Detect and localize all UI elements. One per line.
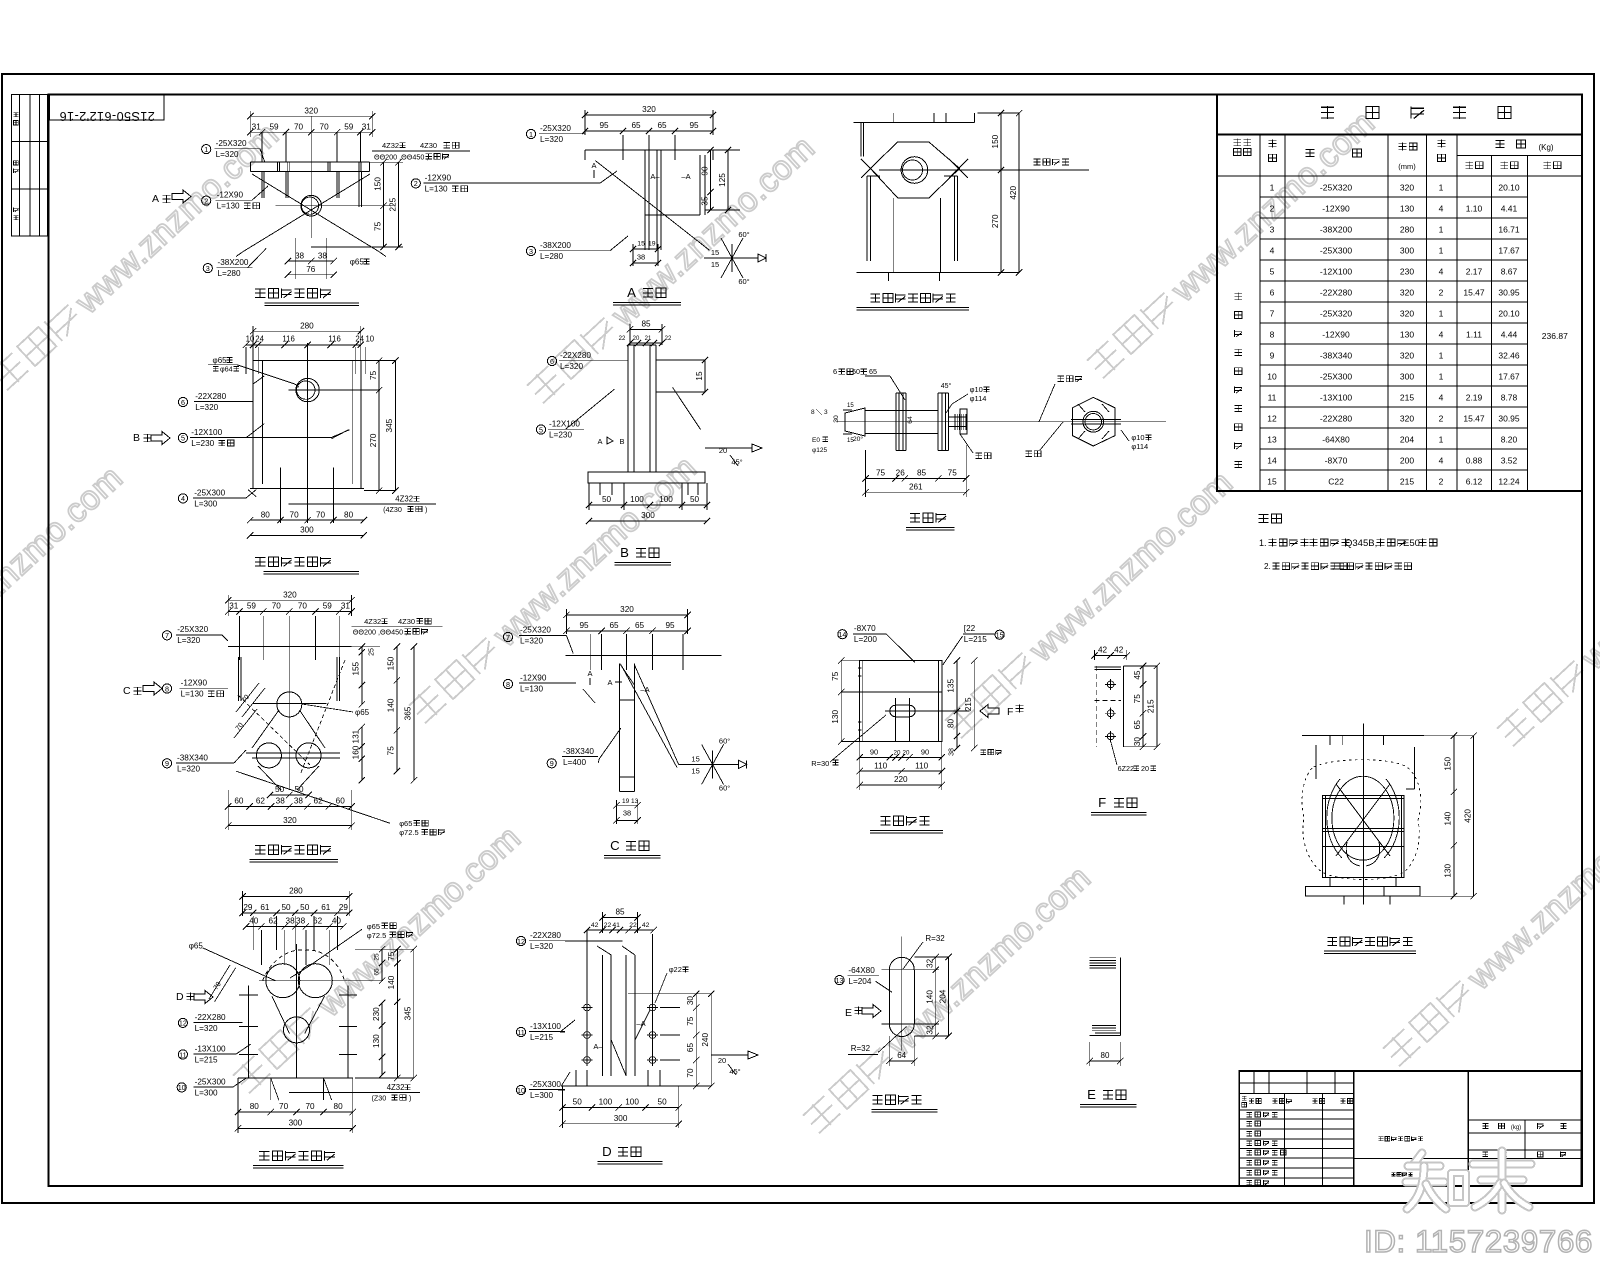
svg-text:-22X280: -22X280 [195,392,226,401]
svg-text:): ) [425,505,427,514]
table header rows [1217,175,1582,177]
svg-text:L=215: L=215 [195,1055,218,1064]
D6 left cone [845,408,865,436]
svg-text:38: 38 [623,809,631,818]
svg-text:L=230: L=230 [191,439,214,448]
svg-text:70: 70 [272,602,282,611]
D13 right dims 30 75 65 70 / 240 [628,993,711,995]
svg-text:75: 75 [373,221,382,231]
D1 title: fixed support upper seat [255,288,265,290]
svg-text:L=320: L=320 [195,1024,218,1033]
D3 centre line extending right [879,169,1089,171]
D8 column with pointed top [619,664,621,792]
svg-text:5: 5 [539,425,543,434]
D14 balloon 13 label -64X80 L=204 [835,976,844,985]
svg-text:17.67: 17.67 [1498,372,1520,382]
svg-text:1: 1 [1439,309,1444,319]
svg-text:38: 38 [318,251,328,260]
D13 balloon 12 label -22X280 L=320 (leader from left) [516,936,525,945]
svg-text:-38X340: -38X340 [1320,351,1352,361]
svg-text:-38X200: -38X200 [1320,225,1352,235]
svg-text:3: 3 [206,264,210,273]
svg-text:2: 2 [1270,204,1275,214]
svg-text:3.52: 3.52 [1501,456,1518,466]
svg-text:4.41: 4.41 [1501,204,1518,214]
D14 title movable stop block [872,1095,882,1097]
D10 bolts [1107,681,1114,688]
D3 X crossing marks at hexagon tips [861,159,880,178]
D8 balloon 8 label -12X90 L=130 (left) [503,679,512,688]
svg-text:1: 1 [1439,246,1444,256]
svg-text:-22X280: -22X280 [530,931,561,940]
svg-text:12: 12 [179,1019,187,1028]
D3 body verticals [893,198,895,272]
svg-text:75: 75 [387,746,396,756]
svg-text:60: 60 [234,797,244,806]
notes below table (fu zhu) [1259,514,1269,516]
svg-text:320: 320 [1400,351,1414,361]
D14 right dims 32 140 32 / 204 [914,956,948,958]
svg-text:1: 1 [1439,225,1444,235]
svg-text:70: 70 [305,1102,315,1111]
svg-text:-12X90: -12X90 [1322,204,1350,214]
svg-text:22: 22 [629,922,637,929]
svg-text:-25X300: -25X300 [530,1080,561,1089]
svg-text:8.67: 8.67 [1501,267,1518,277]
svg-text:-12X90: -12X90 [425,173,452,182]
svg-text:85: 85 [641,320,651,329]
svg-text:25: 25 [374,953,381,961]
svg-text:61: 61 [321,903,331,912]
svg-text:70: 70 [290,510,300,519]
svg-text:1: 1 [1439,435,1444,445]
svg-text:15.47: 15.47 [1463,288,1485,298]
svg-text:Q345B,: Q345B, [1345,538,1377,549]
svg-text:110: 110 [874,761,887,770]
svg-text:61: 61 [260,903,270,912]
svg-text:100: 100 [659,495,673,504]
svg-text:φ65: φ65 [367,922,380,931]
svg-text:6: 6 [833,367,837,376]
D12 right dim columns [355,948,414,950]
svg-text:16.71: 16.71 [1498,225,1520,235]
svg-text:32.46: 32.46 [1498,351,1520,361]
svg-text:70: 70 [294,122,304,131]
svg-text:320: 320 [1400,414,1414,424]
D5 balloon 6 label -22X280 L=320 [547,356,556,365]
svg-text:D: D [602,1144,612,1159]
svg-text:8.78: 8.78 [1501,393,1518,403]
D2 top dimension 320 / 95-65-65-95 [585,114,713,116]
D11 inner assembly box [1323,796,1405,878]
svg-text:-25X320: -25X320 [216,139,247,148]
D12 top arc of block [263,950,345,981]
svg-text:(kg): (kg) [1511,1125,1521,1131]
svg-text:-25X320: -25X320 [540,124,571,133]
svg-text:F: F [1007,706,1013,718]
svg-text:-13X100: -13X100 [195,1044,226,1053]
svg-text:12: 12 [517,937,525,946]
D9 channel rectangle [860,661,942,742]
svg-text:38: 38 [949,748,956,756]
svg-text:–A: –A [636,1019,645,1028]
D1 top-right bolt note 4*32 holes [372,150,470,152]
svg-text:φ10: φ10 [1131,433,1144,442]
svg-text:59: 59 [344,122,354,131]
D2 weld symbol 60deg [704,257,758,259]
svg-text:42: 42 [1098,646,1108,655]
D6 threaded end with nut [949,416,968,418]
svg-text:4Ζ32: 4Ζ32 [395,495,413,504]
D12 top dim 280 / two sub rows [243,895,350,897]
svg-text:3: 3 [529,247,533,256]
svg-text:E50: E50 [1403,538,1420,549]
svg-text:59: 59 [323,602,333,611]
svg-text:95: 95 [665,621,675,630]
svg-text:A–: A– [593,1042,603,1051]
svg-text:4: 4 [1439,456,1444,466]
svg-text:2.19: 2.19 [1466,393,1483,403]
svg-text:L=320: L=320 [540,135,563,144]
svg-text:85: 85 [917,469,927,478]
D4 main rectangle body [253,361,361,489]
svg-text:80: 80 [344,510,354,519]
D12 bottom plate [238,1077,353,1079]
svg-text:50: 50 [275,785,285,794]
svg-text:65: 65 [609,621,619,630]
D4 bottom dims 80 70 70 80 / 300 [250,519,364,521]
svg-text:22: 22 [604,922,612,929]
svg-text:[22: [22 [964,624,976,633]
svg-text:215: 215 [1400,393,1414,403]
svg-text:140: 140 [926,990,935,1004]
D1 balloon 3 with label -38X200 L=280 [203,264,212,273]
svg-text:15: 15 [691,754,699,763]
svg-text:70: 70 [298,602,308,611]
D1 right dimensions 150 75 225 [369,161,403,163]
svg-text:φ65: φ65 [213,356,228,365]
D4 balloon 6 label -22X280 L=320 [178,397,187,406]
svg-text:11: 11 [517,1028,524,1037]
D5 column verticals [627,345,629,472]
svg-text:50: 50 [658,1098,668,1107]
svg-text:41: 41 [612,922,620,929]
D10 object outline [1122,666,1124,747]
D1 pin hole circle phi65 [301,195,322,216]
svg-text:14: 14 [1267,456,1277,466]
svg-text:42: 42 [1114,646,1124,655]
svg-text:38: 38 [276,797,286,806]
svg-text:C: C [610,838,620,853]
D11 interlocking circles pattern [1332,776,1394,860]
svg-text:A: A [607,678,612,687]
svg-text:φ125: φ125 [812,447,827,454]
D9 title positioning channel [880,816,890,818]
svg-text:17.67: 17.67 [1498,246,1520,256]
svg-text:4Ζ32: 4Ζ32 [387,1083,405,1092]
svg-text:150: 150 [1444,757,1453,771]
svg-text:65: 65 [1133,720,1142,730]
D4 right dimensions 75 270 345 [361,360,396,362]
left margin strip table [12,95,48,237]
svg-text:150: 150 [387,656,396,670]
D15 bottom dim 80 [1090,1060,1121,1062]
svg-text:270: 270 [369,433,378,447]
svg-text:10: 10 [1267,372,1277,382]
svg-text:7: 7 [165,631,169,640]
svg-text:-13X100: -13X100 [530,1022,561,1031]
svg-text:130: 130 [1444,864,1453,878]
D4 extension verticals [245,347,247,374]
svg-text:2: 2 [1439,414,1444,424]
D1 bottom small dims 38 38 76 [295,238,297,279]
svg-text:320: 320 [642,105,656,114]
svg-text:215: 215 [1147,699,1156,713]
svg-text:-25X320: -25X320 [1320,183,1352,193]
svg-text:-12X100: -12X100 [191,428,222,437]
D13 bolt columns [586,930,588,1066]
D11 base pedestal [1306,887,1420,896]
D8 plate line [565,655,721,657]
svg-text:59: 59 [269,122,279,131]
D7 bottom dims [270,794,309,796]
svg-text:15: 15 [1267,477,1277,487]
svg-text:D: D [176,991,184,1003]
svg-text:4: 4 [1270,246,1275,256]
svg-text:R=32: R=32 [925,934,945,943]
svg-text:-38X340: -38X340 [177,753,208,762]
svg-text:-12X90: -12X90 [520,673,547,682]
svg-text:φ114: φ114 [1131,442,1148,451]
D7 balloon 8 label -12X90 L=130 [162,684,171,693]
svg-text:2.17: 2.17 [1466,267,1483,277]
D7 plate line [228,646,351,648]
D5 base plate [590,471,705,473]
D7 bolt note top right [352,625,443,627]
svg-text:21: 21 [645,336,652,342]
svg-text:2: 2 [1439,288,1444,298]
svg-text:L=320: L=320 [530,942,553,951]
svg-text:C22: C22 [1328,477,1344,487]
svg-text:31: 31 [341,602,351,611]
svg-text:80: 80 [1101,1051,1110,1060]
D1 cross diagonals [252,174,378,251]
svg-text:19: 19 [622,798,630,805]
D5 bottom dims 50 100 100 50 / 300 [589,504,707,506]
D10 right dims 45 75 65 30 / 215 [1142,666,1144,747]
svg-text:20: 20 [894,750,901,757]
svg-text:261: 261 [909,482,923,491]
svg-text:20: 20 [903,750,910,757]
svg-text:-25X320: -25X320 [1320,309,1352,319]
svg-text:320: 320 [620,605,634,614]
svg-text:31: 31 [229,602,239,611]
D13 top dims 85 / 42-22-41-22-42 [603,917,638,919]
svg-text:φ65: φ65 [189,942,204,951]
svg-text:90: 90 [921,748,929,757]
D7 right dim columns [352,646,380,648]
D9 balloon 15 label C22 L=215 [995,630,1004,639]
D4 centre lines and hole [307,343,309,523]
svg-text:110: 110 [915,761,928,770]
table data rows [1260,196,1528,198]
svg-text:14: 14 [838,630,846,639]
svg-text:95: 95 [689,121,699,130]
svg-text:6.12: 6.12 [1466,477,1483,487]
svg-text:64: 64 [907,416,914,424]
svg-text:38: 38 [295,251,305,260]
svg-text:13: 13 [1267,435,1277,445]
svg-text:42: 42 [591,922,599,929]
svg-text:15: 15 [847,403,854,409]
D7 top dim 320 / 31-59-70-70-59-31 [228,599,351,601]
svg-text:100: 100 [599,1098,613,1107]
svg-text:-12X100: -12X100 [1320,267,1352,277]
svg-text:50: 50 [300,903,310,912]
D6 pin through nut [1071,419,1121,421]
svg-text:60°: 60° [738,230,749,239]
svg-text:62: 62 [314,797,324,806]
svg-text:21S50-612'2-16: 21S50-612'2-16 [59,109,155,123]
D13 baseplate [561,1085,676,1087]
svg-text:1: 1 [1439,351,1444,361]
svg-text:85: 85 [615,908,625,917]
svg-text:140: 140 [387,975,396,989]
svg-text:(Ζ30: (Ζ30 [372,1094,387,1103]
svg-text:45°: 45° [731,458,742,467]
D7 balloon 9 label -38X340 L=320 [162,759,171,768]
svg-text:420: 420 [1009,186,1018,200]
svg-text:100: 100 [625,1098,639,1107]
svg-text:320: 320 [283,816,297,825]
svg-text:280: 280 [300,321,314,330]
svg-text:320: 320 [1400,288,1414,298]
svg-text:38: 38 [294,797,304,806]
svg-text:10: 10 [178,1083,186,1092]
D6 title axle detail [910,513,920,515]
svg-text:300: 300 [641,511,655,520]
table member-name vertical text [1235,292,1243,294]
svg-text:65: 65 [631,121,641,130]
svg-text:L=280: L=280 [540,252,563,261]
svg-text:420: 420 [1463,809,1472,823]
svg-text:-38X200: -38X200 [218,258,249,267]
svg-text:65: 65 [635,621,645,630]
svg-text:60°: 60° [719,783,730,792]
svg-text:15: 15 [996,631,1004,640]
svg-text:64: 64 [897,1051,906,1060]
svg-text:6: 6 [550,357,554,366]
svg-text:A–: A– [650,172,660,181]
svg-text:22: 22 [619,336,626,342]
svg-text:-25X300: -25X300 [1320,246,1352,256]
svg-text:45°: 45° [729,1067,740,1076]
svg-text:φ65: φ65 [350,258,365,267]
svg-text:75: 75 [948,469,958,478]
svg-text:-25X300: -25X300 [194,488,225,497]
svg-text:116: 116 [282,334,294,343]
svg-text:φ22: φ22 [669,965,682,974]
svg-text:60°: 60° [738,277,749,286]
D12 bottom dims 80 70 70 80 / 300 [238,1111,353,1113]
svg-text:215: 215 [964,697,973,711]
D12 side rails with rung ticks [248,985,250,1078]
svg-text:75: 75 [876,469,886,478]
D1 plate object [250,161,369,163]
svg-text:76: 76 [306,265,316,274]
svg-text:6Ζ22: 6Ζ22 [1118,764,1134,773]
svg-text:,: , [1332,562,1334,571]
svg-text:7: 7 [506,633,510,642]
D13 diagonal braces [611,1040,626,1076]
svg-text:-25X300: -25X300 [1320,372,1352,382]
D11 side brackets [1315,745,1317,779]
svg-text:12.24: 12.24 [1498,477,1520,487]
svg-text:4: 4 [181,494,185,503]
svg-text:65: 65 [374,968,381,976]
svg-text:3: 3 [1270,225,1275,235]
svg-text:160: 160 [352,745,361,759]
D6 castle nut hexagon [1073,397,1116,446]
svg-text:50: 50 [573,1098,583,1107]
svg-text:300: 300 [1400,246,1414,256]
D5 diagonal stiffeners [565,389,614,429]
svg-text:9: 9 [165,759,169,768]
svg-text:12: 12 [1267,414,1277,424]
svg-text:B: B [619,437,624,446]
svg-text:29: 29 [339,903,349,912]
D14 stadium slot shape [888,970,890,1024]
D9 bottom dims 90 20 20 90 / 110 110 / 220 [860,756,942,758]
svg-text:L=280: L=280 [218,269,241,278]
D2 column and gusset lines [644,150,646,250]
svg-text:220: 220 [894,775,908,784]
svg-text:L=320: L=320 [177,764,200,773]
svg-text:φ72.5: φ72.5 [367,931,386,940]
svg-text:L=130: L=130 [520,684,543,693]
svg-text:130: 130 [1400,204,1414,214]
svg-text:7: 7 [1270,309,1275,319]
svg-text:130: 130 [1400,330,1414,340]
svg-text:45: 45 [1133,670,1142,680]
svg-text:1: 1 [1439,372,1444,382]
D9 F view arrow [980,705,999,718]
svg-text:50: 50 [294,785,304,794]
svg-text:30: 30 [1133,737,1142,747]
D9 right dims 135 80 215 38 [956,661,958,748]
svg-text:L=320: L=320 [177,636,200,645]
D12 rotated dim 70 [215,968,236,1002]
svg-text:15: 15 [691,766,699,775]
svg-text:2: 2 [1439,477,1444,487]
svg-text:6: 6 [1270,288,1275,298]
svg-text:L=300: L=300 [530,1091,553,1100]
svg-text:215: 215 [1400,477,1414,487]
D2 balloon 2 label -12X90 L=130 4jian [411,179,420,188]
svg-text:R=32: R=32 [851,1044,871,1053]
D2 right dims 90 35 125 [713,149,740,151]
svg-text:204: 204 [938,989,947,1003]
svg-text:300: 300 [289,1119,303,1128]
svg-text:-38X340: -38X340 [563,747,594,756]
svg-text:A: A [597,437,602,446]
svg-text:(4Ζ30: (4Ζ30 [383,505,402,514]
svg-text:30.95: 30.95 [1498,414,1520,424]
svg-text:9: 9 [1270,351,1275,361]
svg-text:(Kg): (Kg) [1538,143,1553,152]
D6 shaft centreline [836,421,1166,423]
svg-text:20.10: 20.10 [1498,183,1520,193]
